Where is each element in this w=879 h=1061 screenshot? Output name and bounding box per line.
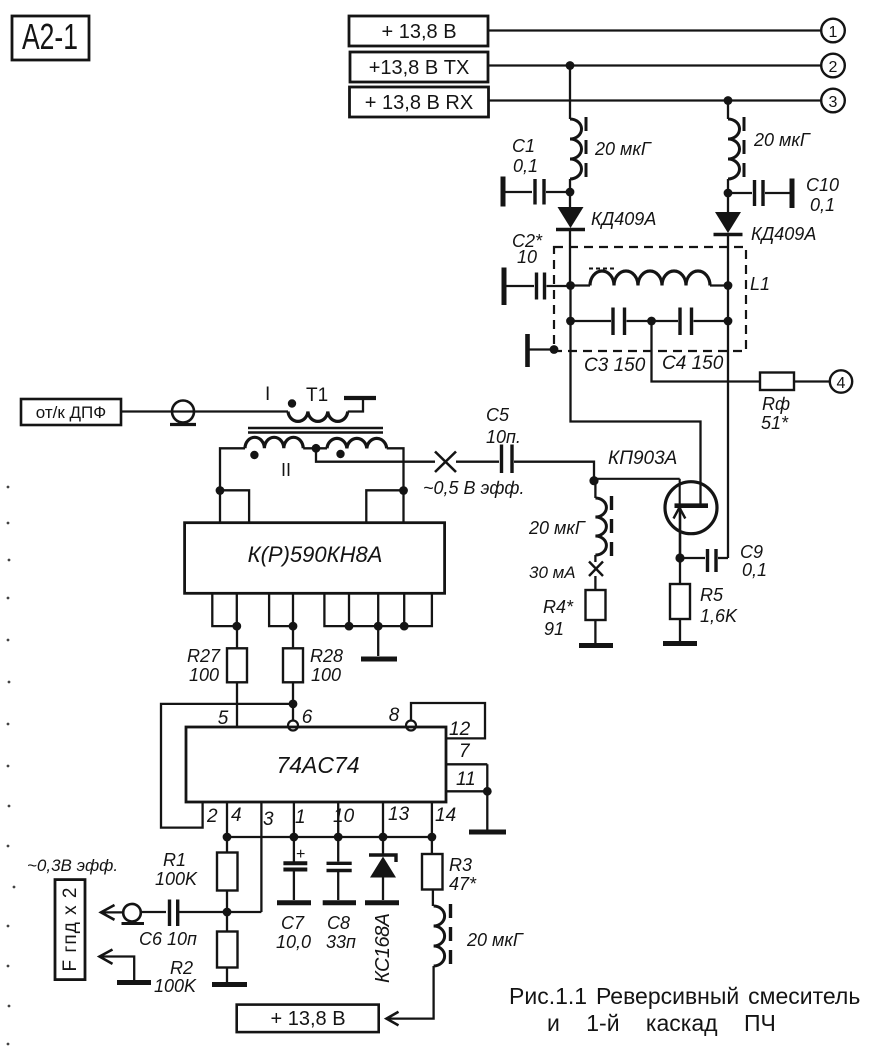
capacitor C4 150 [652, 308, 729, 375]
power rail box +13,8 В [349, 16, 488, 46]
ground R2 [212, 982, 247, 987]
node pin stub joins [232, 622, 408, 631]
svg-text:4: 4 [231, 805, 242, 826]
svg-text:10,0: 10,0 [276, 932, 311, 952]
svg-text:0,1: 0,1 [810, 195, 835, 215]
wire choke to node [727, 179, 729, 193]
node left pin pair [216, 486, 225, 495]
wire rail3 to terminal 3 [489, 99, 821, 101]
transistor VT1 КП903А [594, 448, 717, 558]
svg-text:C5: C5 [486, 405, 510, 425]
capacitor C3 150 [571, 308, 652, 377]
transformer T1 secondary winding II [245, 437, 387, 480]
svg-text:Rф: Rф [762, 394, 790, 414]
shield ground bar [528, 334, 555, 367]
svg-text:1,6K: 1,6K [700, 606, 738, 626]
wire L1 left branch to FET drain [571, 321, 701, 506]
zener diode КС168А [365, 837, 399, 983]
svg-text:Рис.1.1 Реверсивный смесител: Рис.1.1 Реверсивный смеситель [509, 983, 860, 1009]
ground IC stub [361, 626, 397, 659]
node L1 right [724, 281, 733, 290]
capacitor C8 33п [323, 837, 356, 952]
measurement point 30 мА [529, 555, 603, 582]
wire rail2 to terminal 2 [488, 64, 821, 66]
node C4 right [724, 317, 733, 326]
node right pin pair [399, 486, 408, 495]
svg-text:100K: 100K [155, 869, 198, 889]
svg-text:C3 150: C3 150 [584, 355, 646, 376]
svg-text:КД409А: КД409А [591, 209, 656, 229]
wire rail1 to terminal 1 [488, 29, 821, 31]
svg-text:КД409А: КД409А [751, 224, 816, 244]
node shield corner [550, 345, 559, 354]
svg-text:10: 10 [333, 806, 355, 827]
svg-text:91: 91 [544, 619, 564, 639]
svg-text:2: 2 [829, 59, 838, 76]
wire pin 10 [337, 802, 339, 837]
node C3 left [566, 317, 575, 326]
terminal 4 [830, 370, 852, 392]
diode VD1 КД409А [556, 192, 656, 286]
diode VD2 КД409А [714, 193, 817, 244]
power rail box +13,8 В RX [350, 87, 489, 117]
wire L1 left node down [569, 286, 571, 322]
node RX junction [724, 96, 733, 105]
svg-text:5: 5 [218, 708, 229, 729]
capacitor C5 10п [456, 405, 521, 473]
svg-text:L1: L1 [750, 274, 770, 294]
wire supply bus [227, 836, 432, 838]
wire pin7/11 to ground [486, 764, 488, 830]
svg-text:К(Р)590КН8А: К(Р)590КН8А [248, 542, 383, 567]
capacitor C10 0,1 [728, 175, 839, 215]
capacitor C6 10п [139, 899, 197, 949]
svg-text:100: 100 [189, 665, 219, 685]
measurement point ~0,5 В эфф [423, 452, 524, 499]
svg-text:+ 13,8 В: + 13,8 В [381, 21, 456, 43]
arrow to F гпд (upper) [101, 905, 123, 920]
module label A2-1 [12, 16, 89, 60]
node T1 center tap [312, 444, 321, 453]
svg-text:C7: C7 [281, 913, 305, 933]
svg-text:20 мкГ: 20 мкГ [594, 139, 652, 159]
L1 shield box (dashed) [554, 247, 746, 351]
svg-text:КП903А: КП903А [608, 448, 677, 469]
arrow to F гпд (lower) [100, 950, 135, 981]
svg-text:R5: R5 [700, 585, 724, 605]
svg-text:R4*: R4* [543, 597, 574, 617]
svg-text:+ 13,8 В: + 13,8 В [270, 1008, 345, 1030]
svg-text:C4 150: C4 150 [662, 353, 724, 374]
wire C5 to gate node [514, 462, 594, 481]
wire box to connector [121, 410, 288, 412]
svg-text:R28: R28 [310, 646, 343, 666]
node gate junction [589, 476, 598, 485]
pin 7 stub [446, 763, 487, 765]
svg-text:+13,8 В TX: +13,8 В TX [369, 57, 470, 79]
power box + 13,8 В (bottom) [237, 1005, 379, 1033]
svg-text:1: 1 [829, 24, 838, 41]
svg-text:и 1-й каскад ПЧ: и 1-й каскад ПЧ [547, 1010, 776, 1036]
svg-text:от/к ДПФ: от/к ДПФ [36, 403, 106, 422]
node C3/C4 junction [647, 317, 656, 326]
inductor RX choke 20 мкГ [728, 117, 811, 180]
capacitor C9 0,1 [680, 542, 767, 580]
transformer T1 primary winding I [265, 384, 376, 421]
svg-text:20 мкГ: 20 мкГ [466, 930, 524, 950]
IC U1 bottom pin stubs [212, 593, 432, 626]
wire pin 4 [226, 802, 228, 837]
arrow into +13,8 box [387, 1012, 399, 1026]
svg-text:74AC74: 74AC74 [276, 752, 359, 778]
svg-text:C9: C9 [740, 542, 763, 562]
svg-text:3: 3 [829, 94, 838, 111]
svg-text:100: 100 [311, 665, 341, 685]
capacitor C2* 10 [504, 231, 571, 305]
svg-text:10: 10 [517, 247, 537, 267]
wire T1 secondary left to IC [220, 448, 245, 490]
svg-text:47*: 47* [449, 874, 477, 894]
node feedback junction [289, 700, 298, 709]
svg-text:C6 10п: C6 10п [139, 929, 197, 949]
IC U2 74AC74 [186, 727, 446, 802]
wire feedback loop pin6 to pin2 [161, 704, 293, 828]
svg-text:3: 3 [263, 809, 274, 830]
inductor TX choke 20 мкГ [570, 117, 652, 180]
resistor R1 100K [155, 837, 238, 912]
wire pin 3 to C6 line [260, 802, 262, 912]
pin 11 stub [446, 790, 487, 792]
svg-text:R3: R3 [449, 855, 472, 875]
svg-text:0,1: 0,1 [513, 156, 538, 176]
node pin11 junction [483, 787, 492, 796]
pin labels top [218, 705, 400, 729]
wire pin8 to pin12 [411, 703, 485, 738]
node bus junctions [223, 833, 437, 842]
svg-text:C1: C1 [512, 136, 535, 156]
svg-text:14: 14 [435, 805, 456, 826]
pin labels right [449, 719, 476, 790]
output box F гпд x 2 [55, 880, 85, 980]
resistor R3 47* [422, 837, 477, 906]
svg-text:100K: 100K [154, 976, 197, 996]
capacitor C7 10,0 [276, 837, 311, 952]
ground R5 [663, 641, 697, 646]
svg-text:~0,3В эфф.: ~0,3В эфф. [27, 856, 118, 875]
svg-text:C10: C10 [806, 175, 839, 195]
ground pin11 [469, 830, 506, 835]
ground R4 [579, 643, 613, 648]
node TX junction [566, 61, 575, 70]
scan speckles left margin [7, 486, 16, 1046]
node L1 left [566, 281, 575, 290]
caption Рис.1.1 [509, 983, 860, 1036]
svg-text:А2-1: А2-1 [22, 16, 78, 57]
svg-text:11: 11 [456, 769, 476, 790]
svg-text:33п: 33п [326, 932, 356, 952]
wire pin 14 [431, 802, 433, 837]
node C1/diode junction [566, 188, 575, 197]
svg-text:R2: R2 [170, 958, 193, 978]
wire RX node down to right choke [727, 101, 729, 120]
svg-text:R1: R1 [163, 850, 186, 870]
wire choke to node [569, 179, 571, 192]
svg-text:C8: C8 [327, 913, 350, 933]
inductor L1 [571, 269, 771, 295]
svg-text:1: 1 [295, 807, 306, 828]
resistor R27 100 [187, 626, 247, 727]
svg-text:20 мкГ: 20 мкГ [753, 130, 811, 150]
pin labels bottom [206, 804, 456, 830]
svg-text:F гпд x 2: F гпд x 2 [60, 888, 81, 972]
wire center tap to C5 [316, 448, 435, 461]
op-amp U1 К(Р)590КН8А [185, 523, 445, 594]
pin 8 bubble [406, 721, 416, 731]
terminal 3 [821, 89, 845, 113]
wire pin 1 [293, 802, 295, 837]
inductor FET choke 20 мкГ [528, 481, 612, 557]
svg-text:4: 4 [837, 375, 846, 392]
svg-text:I: I [265, 384, 270, 405]
svg-text:12: 12 [449, 719, 471, 740]
node C10/diode junction [724, 189, 733, 198]
svg-text:0,1: 0,1 [742, 560, 767, 580]
inductor output choke 20 мкГ [434, 904, 524, 967]
svg-text:51*: 51* [761, 413, 789, 433]
connector (coax) [170, 401, 196, 425]
connector F гпд [122, 904, 145, 924]
svg-text:+: + [296, 846, 305, 863]
svg-text:7: 7 [459, 741, 471, 762]
terminal 2 [821, 54, 845, 78]
capacitor C1 0,1 [503, 136, 570, 207]
pin 6 bubble [288, 721, 298, 731]
wire choke to +13,8 box [388, 966, 434, 1019]
wire pin 13 [382, 802, 384, 837]
svg-text:II: II [281, 460, 291, 480]
terminal 1 [821, 19, 845, 43]
ground lower arrow [117, 980, 151, 985]
IC U1 top pin stubs [220, 490, 404, 522]
svg-text:10п.: 10п. [486, 427, 521, 447]
svg-text:6: 6 [302, 707, 313, 728]
wire right branch down through L1 [727, 236, 729, 558]
svg-text:2: 2 [206, 806, 218, 827]
wire C3/C4 node to Rф [652, 321, 761, 382]
node R1/R2/C6 junction [223, 908, 232, 917]
transformer T1 core [248, 428, 383, 433]
svg-text:20 мкГ: 20 мкГ [528, 518, 586, 538]
resistor R28 100 [283, 626, 343, 720]
resistor R2 100K [154, 912, 238, 996]
wire T1 secondary right to IC [387, 448, 404, 490]
input box от/к ДПФ [21, 399, 121, 425]
svg-text:Т1: Т1 [306, 385, 328, 406]
resistor R5 1,6K [670, 558, 738, 641]
svg-text:КС168А: КС168А [372, 913, 394, 983]
node source/C9 junction [675, 553, 684, 562]
svg-text:8: 8 [389, 705, 400, 726]
power rail box +13,8 В TX [350, 52, 488, 82]
resistor Rф 51* [760, 373, 829, 434]
wire C6 line [141, 911, 261, 913]
resistor R4* 91 [543, 576, 606, 643]
wire TX node down to choke [569, 66, 571, 120]
svg-text:13: 13 [388, 804, 410, 825]
svg-text:+ 13,8 В RX: + 13,8 В RX [365, 92, 473, 114]
svg-text:~0,5 В эфф.: ~0,5 В эфф. [423, 478, 524, 498]
svg-text:R27: R27 [187, 646, 221, 666]
svg-text:30 мА: 30 мА [529, 563, 576, 582]
